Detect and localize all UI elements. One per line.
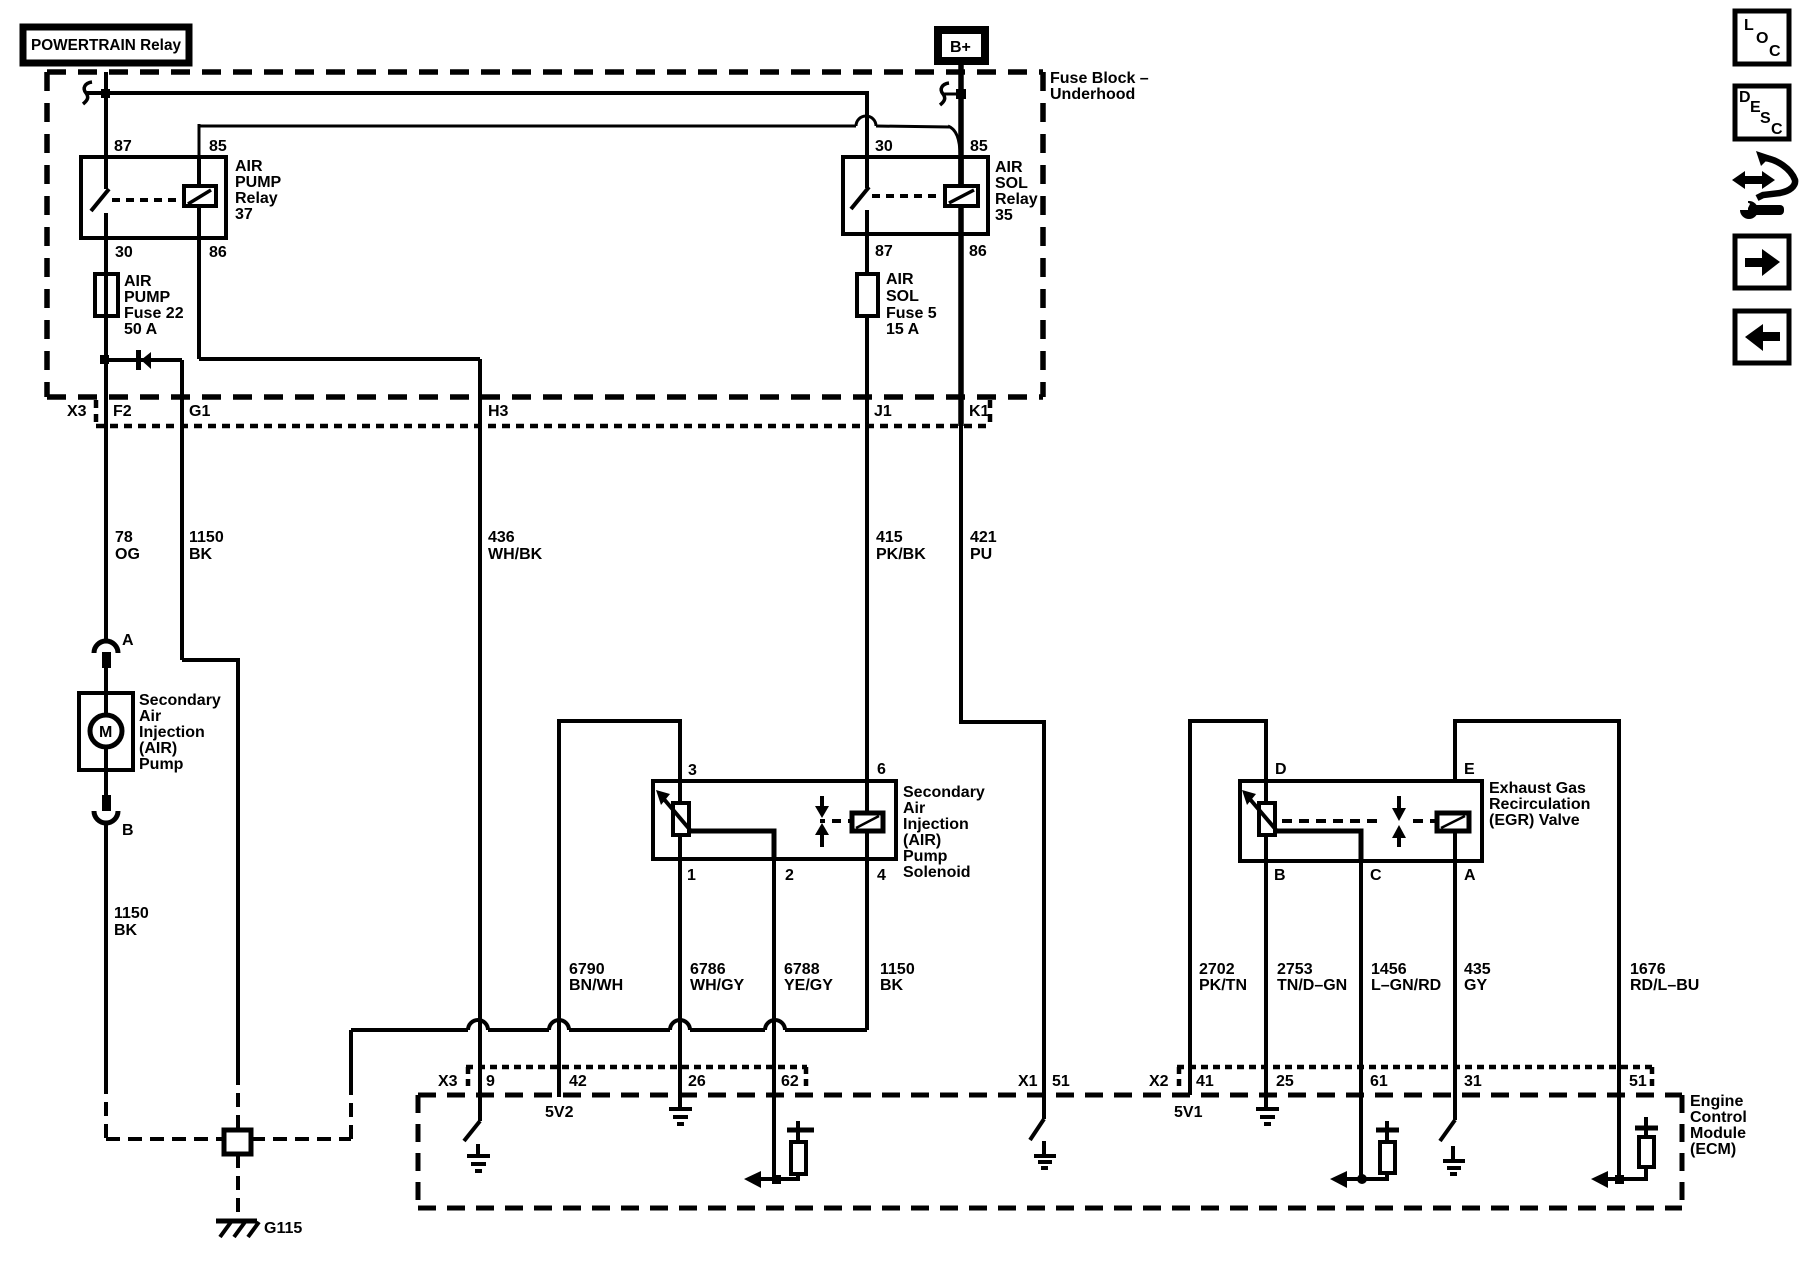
svg-text:J1: J1 — [874, 403, 892, 420]
svg-text:Secondary: Secondary — [903, 784, 985, 801]
svg-text:O: O — [1756, 30, 1768, 47]
svg-text:85: 85 — [209, 138, 227, 155]
svg-text:87: 87 — [114, 138, 132, 155]
svg-text:Injection: Injection — [903, 816, 969, 833]
svg-text:5V1: 5V1 — [1174, 1104, 1203, 1121]
svg-text:Pump: Pump — [139, 756, 184, 773]
svg-text:(ECM): (ECM) — [1690, 1141, 1736, 1158]
svg-text:415: 415 — [876, 529, 903, 546]
svg-text:YE/GY: YE/GY — [784, 977, 833, 994]
svg-text:15 A: 15 A — [886, 321, 920, 338]
svg-text:Fuse Block –: Fuse Block – — [1050, 70, 1149, 87]
svg-text:30: 30 — [115, 244, 133, 261]
svg-text:Injection: Injection — [139, 724, 205, 741]
svg-text:Relay: Relay — [235, 190, 278, 207]
svg-text:421: 421 — [970, 529, 997, 546]
svg-text:PUMP: PUMP — [235, 174, 282, 191]
svg-text:X1: X1 — [1018, 1073, 1038, 1090]
svg-text:Module: Module — [1690, 1125, 1746, 1142]
svg-text:Engine: Engine — [1690, 1093, 1743, 1110]
svg-text:6: 6 — [877, 761, 886, 778]
svg-text:6786: 6786 — [690, 961, 726, 978]
svg-text:1456: 1456 — [1371, 961, 1407, 978]
svg-text:435: 435 — [1464, 961, 1491, 978]
svg-text:9: 9 — [486, 1073, 495, 1090]
svg-text:H3: H3 — [488, 403, 509, 420]
svg-text:S: S — [1760, 110, 1771, 127]
svg-text:GY: GY — [1464, 977, 1487, 994]
svg-text:78: 78 — [115, 529, 133, 546]
svg-text:PK/BK: PK/BK — [876, 546, 926, 563]
svg-text:Exhaust Gas: Exhaust Gas — [1489, 780, 1586, 797]
svg-text:(EGR) Valve: (EGR) Valve — [1489, 812, 1580, 829]
svg-text:AIR: AIR — [886, 271, 914, 288]
svg-text:Solenoid: Solenoid — [903, 864, 971, 881]
svg-text:G1: G1 — [189, 403, 210, 420]
svg-text:BK: BK — [189, 546, 213, 563]
svg-text:D: D — [1739, 89, 1751, 106]
svg-text:87: 87 — [875, 243, 893, 260]
svg-text:L: L — [1744, 17, 1754, 34]
svg-text:1150: 1150 — [114, 905, 149, 922]
svg-text:4: 4 — [877, 867, 886, 884]
svg-text:3: 3 — [688, 762, 697, 779]
svg-text:26: 26 — [688, 1073, 706, 1090]
svg-text:X2: X2 — [1149, 1073, 1169, 1090]
svg-text:(AIR): (AIR) — [903, 832, 941, 849]
svg-text:2702: 2702 — [1199, 961, 1235, 978]
svg-text:85: 85 — [970, 138, 988, 155]
svg-text:BK: BK — [114, 922, 138, 939]
svg-text:25: 25 — [1276, 1073, 1294, 1090]
svg-text:51: 51 — [1052, 1073, 1070, 1090]
svg-text:C: C — [1771, 121, 1783, 138]
svg-text:Fuse 22: Fuse 22 — [124, 305, 184, 322]
svg-text:PK/TN: PK/TN — [1199, 977, 1247, 994]
svg-text:X3: X3 — [67, 403, 87, 420]
svg-text:Underhood: Underhood — [1050, 86, 1135, 103]
svg-text:G115: G115 — [264, 1220, 302, 1237]
svg-text:PU: PU — [970, 546, 992, 563]
svg-text:X3: X3 — [438, 1073, 458, 1090]
svg-text:42: 42 — [569, 1073, 587, 1090]
svg-text:5V2: 5V2 — [545, 1104, 574, 1121]
svg-text:Relay: Relay — [995, 191, 1038, 208]
svg-text:41: 41 — [1196, 1073, 1214, 1090]
svg-text:B: B — [122, 822, 134, 839]
svg-text:K1: K1 — [969, 403, 990, 420]
svg-text:62: 62 — [781, 1073, 799, 1090]
svg-text:61: 61 — [1370, 1073, 1388, 1090]
svg-text:2: 2 — [785, 867, 794, 884]
svg-text:OG: OG — [115, 546, 140, 563]
svg-text:1676: 1676 — [1630, 961, 1666, 978]
svg-text:BN/WH: BN/WH — [569, 977, 623, 994]
svg-text:6788: 6788 — [784, 961, 820, 978]
svg-text:A: A — [122, 632, 134, 649]
svg-text:Pump: Pump — [903, 848, 948, 865]
svg-text:L–GN/RD: L–GN/RD — [1371, 977, 1441, 994]
svg-text:(AIR): (AIR) — [139, 740, 177, 757]
svg-text:86: 86 — [209, 244, 227, 261]
svg-text:AIR: AIR — [235, 158, 263, 175]
svg-text:436: 436 — [488, 529, 515, 546]
svg-text:6790: 6790 — [569, 961, 605, 978]
svg-text:Secondary: Secondary — [139, 692, 221, 709]
svg-text:Fuse 5: Fuse 5 — [886, 305, 937, 322]
svg-text:SOL: SOL — [995, 175, 1028, 192]
svg-text:RD/L–BU: RD/L–BU — [1630, 977, 1699, 994]
svg-text:1150: 1150 — [189, 529, 224, 546]
svg-text:Recirculation: Recirculation — [1489, 796, 1590, 813]
svg-text:PUMP: PUMP — [124, 289, 171, 306]
svg-text:A: A — [1464, 867, 1476, 884]
svg-text:37: 37 — [235, 206, 253, 223]
svg-text:POWERTRAIN Relay: POWERTRAIN Relay — [31, 37, 181, 54]
svg-text:F2: F2 — [113, 403, 132, 420]
svg-text:30: 30 — [875, 138, 893, 155]
svg-text:E: E — [1464, 761, 1475, 778]
svg-text:1: 1 — [687, 867, 696, 884]
svg-text:M: M — [99, 724, 112, 741]
svg-text:C: C — [1370, 867, 1382, 884]
svg-text:35: 35 — [995, 207, 1013, 224]
svg-text:Air: Air — [903, 800, 925, 817]
svg-text:WH/GY: WH/GY — [690, 977, 745, 994]
svg-text:AIR: AIR — [995, 159, 1023, 176]
svg-text:1150: 1150 — [880, 961, 915, 978]
svg-text:2753: 2753 — [1277, 961, 1313, 978]
svg-text:86: 86 — [969, 243, 987, 260]
svg-text:Air: Air — [139, 708, 161, 725]
svg-text:50 A: 50 A — [124, 321, 158, 338]
svg-text:D: D — [1275, 761, 1287, 778]
svg-text:51: 51 — [1629, 1073, 1647, 1090]
svg-text:WH/BK: WH/BK — [488, 546, 543, 563]
svg-text:31: 31 — [1464, 1073, 1482, 1090]
svg-text:C: C — [1769, 43, 1781, 60]
svg-text:B: B — [1274, 867, 1286, 884]
svg-text:BK: BK — [880, 977, 904, 994]
svg-text:SOL: SOL — [886, 288, 919, 305]
svg-text:B+: B+ — [950, 39, 971, 56]
svg-text:AIR: AIR — [124, 273, 152, 290]
svg-text:Control: Control — [1690, 1109, 1747, 1126]
svg-text:TN/D–GN: TN/D–GN — [1277, 977, 1347, 994]
